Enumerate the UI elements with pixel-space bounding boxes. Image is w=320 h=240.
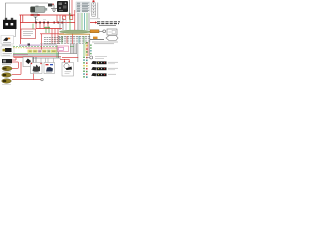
sensor box2	[1, 46, 14, 56]
ring terminal right	[87, 57, 90, 59]
grey wire to sensor box1	[14, 29, 16, 37]
wire battery to top rail	[6, 3, 49, 19]
coil rect	[107, 29, 117, 35]
orange wire 2	[93, 37, 98, 39]
connector row 1	[91, 61, 118, 64]
colored verticals top-center	[60, 13, 89, 30]
legend table	[76, 2, 90, 12]
dark lead	[90, 39, 104, 41]
horn 3	[2, 79, 12, 85]
coil pack box A	[31, 63, 43, 74]
connector row 2	[91, 67, 118, 70]
pin list rows right	[58, 37, 91, 43]
fusible link 1	[31, 14, 34, 16]
starter motor M1	[31, 6, 48, 14]
tiny labels above bus2	[35, 19, 46, 21]
red junction box	[70, 16, 73, 19]
red bus 3	[36, 28, 62, 30]
label under strip	[90, 18, 100, 20]
connector strip column 3	[90, 45, 91, 55]
red arrow	[90, 22, 96, 24]
fuse strip connector	[92, 0, 96, 16]
coil device	[2, 59, 12, 64]
green oval bundle	[60, 30, 91, 33]
label between boxes	[2, 44, 11, 46]
red bus 1	[20, 14, 76, 16]
wires into connector strips	[84, 42, 88, 56]
junction marks bus2 right	[53, 22, 63, 24]
caption text right	[92, 42, 118, 44]
red verticals center-right	[72, 0, 75, 44]
red vertical battery side	[20, 15, 22, 44]
horn 2	[2, 73, 12, 77]
dark vertical near engine	[68, 0, 70, 15]
bus lines below band	[13, 54, 61, 58]
fusible link 2	[37, 14, 40, 16]
junction marks bus2	[35, 22, 49, 24]
colored bus lines center-left	[13, 45, 57, 48]
wire right of strip	[97, 3, 99, 19]
red drop bus4 down	[41, 34, 43, 50]
pink inner box	[59, 47, 64, 50]
green stub below bus2	[32, 24, 34, 30]
sensor box1	[1, 36, 14, 45]
red terminal dot	[53, 4, 54, 5]
green bend center-right	[70, 46, 74, 48]
vertical cluster center-right	[58, 44, 78, 62]
engine block image	[57, 1, 68, 12]
connector row 3	[91, 73, 116, 76]
green shorts center	[44, 27, 50, 34]
drops to bottom boxes	[31, 57, 54, 63]
title text right	[97, 22, 120, 24]
connector strip column 2	[86, 42, 88, 78]
ignition resistor wire	[90, 30, 99, 33]
pin list rows center	[44, 38, 63, 44]
ground G2	[33, 15, 39, 23]
pink outline box	[58, 46, 69, 52]
wire to ground	[53, 5, 55, 8]
yellow highlight band	[28, 50, 57, 53]
bend-down verticals at right end of buses	[57, 45, 59, 58]
red drops bus2 to bus3	[36, 23, 48, 29]
circle terminal bottom	[41, 78, 43, 80]
battery	[3, 18, 17, 29]
tiny text above band	[40, 44, 56, 45]
distributor outline	[106, 36, 118, 41]
red drops bus3 to bus4	[52, 29, 58, 45]
orange line under oval	[59, 33, 90, 35]
small part box with diamond	[23, 57, 33, 67]
connector strip column 1	[83, 57, 85, 78]
red wire mesh bottom-left	[12, 58, 41, 80]
red bus 4	[40, 33, 64, 35]
ground G1	[51, 9, 57, 12]
dark vertical right of oval	[89, 35, 91, 57]
horn 1	[2, 66, 12, 72]
module box B	[44, 63, 55, 74]
red junction box 2	[63, 16, 66, 19]
red drops bus1 to bus2	[57, 15, 60, 23]
coil inner detail	[112, 31, 116, 34]
solenoid component	[48, 4, 52, 7]
black connector mark	[28, 44, 31, 47]
red feed to distributor	[62, 57, 78, 59]
terminal circle	[103, 30, 106, 33]
red bus 2	[20, 22, 75, 24]
relay box upper-left-center	[21, 29, 36, 39]
distributor dial box	[62, 63, 74, 77]
